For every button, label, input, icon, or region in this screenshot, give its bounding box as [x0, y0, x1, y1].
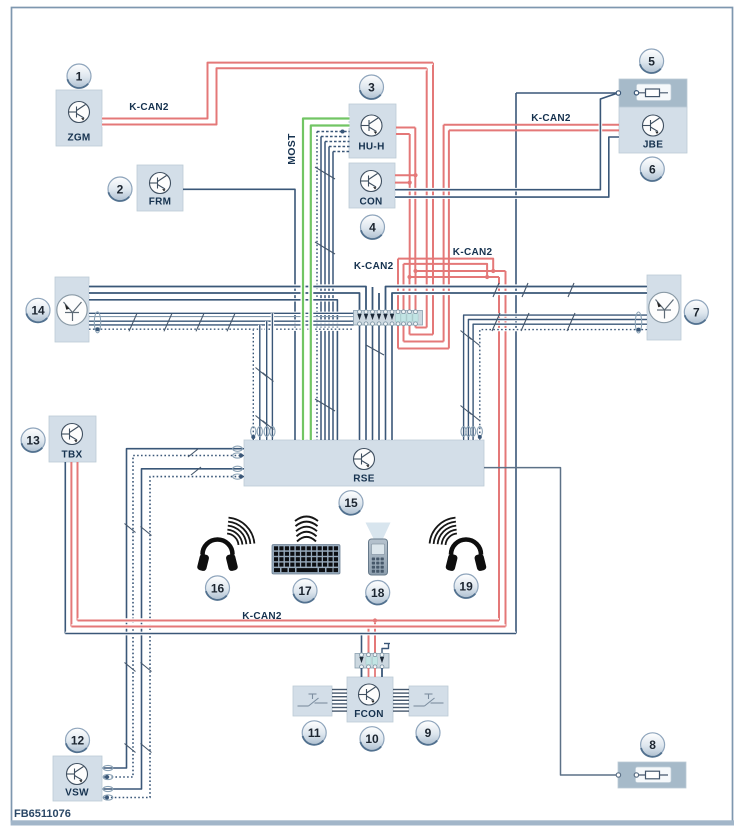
svg-text:7: 7 — [693, 305, 700, 319]
svg-text:18: 18 — [371, 586, 385, 600]
svg-text:8: 8 — [649, 738, 656, 752]
svg-text:13: 13 — [26, 433, 40, 447]
svg-text:TBX: TBX — [62, 450, 83, 461]
svg-text:10: 10 — [365, 732, 379, 746]
svg-text:11: 11 — [308, 726, 321, 740]
svg-text:FRM: FRM — [149, 197, 172, 208]
svg-text:15: 15 — [344, 496, 358, 510]
svg-text:4: 4 — [369, 220, 376, 234]
svg-text:JBE: JBE — [643, 140, 663, 151]
svg-text:HU-H: HU-H — [358, 142, 384, 153]
svg-text:2: 2 — [117, 182, 124, 196]
svg-text:5: 5 — [648, 54, 655, 68]
svg-text:K-CAN2: K-CAN2 — [242, 611, 282, 622]
svg-text:K-CAN2: K-CAN2 — [453, 247, 493, 258]
svg-text:RSE: RSE — [353, 474, 374, 485]
svg-text:FB6511076: FB6511076 — [14, 808, 71, 820]
svg-text:CON: CON — [359, 197, 382, 208]
svg-text:K-CAN2: K-CAN2 — [354, 261, 394, 272]
svg-text:MOST: MOST — [286, 133, 298, 165]
svg-text:3: 3 — [368, 80, 375, 94]
svg-text:6: 6 — [649, 162, 656, 176]
svg-text:1: 1 — [76, 69, 83, 83]
svg-text:12: 12 — [71, 734, 85, 748]
svg-text:K-CAN2: K-CAN2 — [531, 113, 571, 124]
svg-text:9: 9 — [425, 726, 432, 740]
svg-text:ZGM: ZGM — [67, 133, 90, 144]
svg-text:VSW: VSW — [65, 788, 89, 799]
svg-text:19: 19 — [459, 579, 473, 593]
svg-text:K-CAN2: K-CAN2 — [129, 102, 169, 113]
svg-text:14: 14 — [31, 304, 45, 318]
svg-text:16: 16 — [211, 581, 225, 595]
svg-text:17: 17 — [298, 584, 312, 598]
svg-text:FCON: FCON — [354, 709, 384, 720]
